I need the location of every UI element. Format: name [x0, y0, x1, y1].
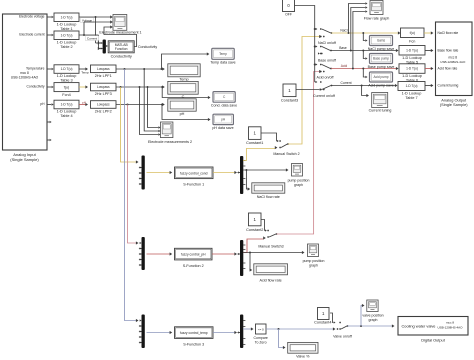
scope Electrode measurement 2 — [148, 122, 192, 144]
svg-text:pH: pH — [82, 100, 86, 104]
Constant4 block — [314, 308, 331, 325]
svg-text:2Hz LPF1: 2Hz LPF1 — [95, 74, 112, 78]
display Valve % — [288, 342, 318, 358]
svg-text:Table 3: Table 3 — [60, 79, 72, 83]
red wire Manual Switch3 up to Acid on/off — [277, 70, 325, 234]
wire cond Fcn4 to lowpass — [79, 85, 88, 88]
blue vertical temp to fuzzy mux — [125, 69, 139, 322]
Lowpass 2Hz LPF3 (conductivity) — [91, 83, 117, 96]
S-Function 1 fuzzy control_cond — [175, 167, 214, 187]
wire temp branch up to To Workspace Temp — [162, 52, 210, 69]
svg-text:Compare: Compare — [253, 336, 267, 340]
wire Current to scope and mux — [79, 20, 113, 50]
To Workspace Temp data save — [210, 48, 235, 64]
yellow vertical conductivity to fuzzy mux — [121, 87, 139, 164]
svg-text:USB-1208HS-4AO: USB-1208HS-4AO — [440, 60, 466, 64]
svg-text:Gains: Gains — [377, 39, 386, 43]
Base on/off switch — [318, 46, 336, 63]
To Workspace Base pump save — [368, 54, 395, 69]
scope Current tuning — [369, 93, 392, 113]
red wire Acid switch to lookup table 6 — [331, 67, 399, 70]
To Workspace Cond data save — [211, 92, 237, 108]
svg-text:Lowpass: Lowpass — [97, 67, 110, 71]
Compare To Zero block — [253, 324, 267, 345]
svg-text:1-D T(u): 1-D T(u) — [61, 33, 73, 37]
Current on/off switch — [313, 81, 335, 98]
demux fuzzy temp — [237, 315, 245, 349]
wire Base switch to lookup table 5 — [331, 49, 399, 52]
1-D Lookup Table 7 — [398, 82, 425, 101]
yellow wire demux up to Manual Switch 2 — [243, 146, 277, 161]
svg-text:1-D Lookup: 1-D Lookup — [57, 22, 77, 26]
svg-text:mcc 8: mcc 8 — [20, 71, 29, 75]
wire branch down to Current tuning scope — [362, 86, 369, 98]
svg-text:Electrode voltage: Electrode voltage — [19, 15, 45, 19]
svg-text:(Single Sample): (Single Sample) — [440, 102, 468, 107]
Manual Switch 2 — [273, 140, 299, 156]
svg-text:Electrode measurements 2: Electrode measurements 2 — [148, 140, 192, 144]
svg-text:1-D Lookup: 1-D Lookup — [57, 110, 77, 114]
wire S-Function 3 to demux — [213, 331, 237, 334]
svg-text:NaCl pump save: NaCl pump save — [368, 47, 395, 51]
scope pump position graph 2 — [303, 244, 325, 268]
MATLAB Function block Conductivity — [108, 41, 134, 59]
wire pH lookup to lowpass — [79, 100, 88, 106]
wire demux down to NaCl flow rate display — [246, 170, 250, 191]
svg-text:Temp: Temp — [179, 78, 188, 82]
Digital Output block — [398, 317, 468, 343]
wire S-Function 2 to demux — [212, 252, 237, 255]
S-Function 2 fuzzy control_pH — [175, 248, 213, 267]
svg-text:Table 4: Table 4 — [60, 114, 72, 118]
svg-text:Constant1: Constant1 — [246, 141, 263, 145]
svg-text:Acid pump: Acid pump — [373, 75, 388, 79]
wire demux to pump position graph 2 — [243, 251, 305, 254]
svg-text:Lowpass: Lowpass — [97, 103, 110, 107]
wire branch up to valve position graph — [361, 304, 365, 326]
wire down to Acid pump save — [363, 69, 367, 79]
wire Compare To Zero to Valve on/off switch — [266, 327, 338, 330]
svg-text:Temp: Temp — [81, 70, 89, 74]
Constant1 block — [246, 127, 263, 145]
svg-text:1-D T(u): 1-D T(u) — [61, 15, 73, 19]
svg-text:graph: graph — [369, 318, 378, 322]
wire mux to MATLAB Function — [106, 45, 108, 47]
wire demux to pump position graph 1 — [243, 168, 289, 171]
svg-text:1-D T(u): 1-D T(u) — [406, 84, 418, 88]
svg-text:Table 1: Table 1 — [60, 27, 72, 31]
svg-text:Valve on/off: Valve on/off — [333, 334, 352, 338]
svg-text:Lowpass: Lowpass — [97, 85, 110, 89]
Acid on/off switch — [317, 64, 334, 80]
Analog Input output ports / stubs — [47, 16, 54, 142]
svg-text:Cooling water valve: Cooling water valve — [402, 324, 436, 329]
svg-text:Conductivity: Conductivity — [27, 85, 45, 89]
scope pump position graph 1 — [288, 164, 310, 188]
1-D Lookup Table 3 (temperature) — [54, 65, 79, 83]
Valve on/off switch — [333, 322, 352, 339]
wires up to Flow rate graph scope — [349, 2, 368, 68]
svg-text:pump position: pump position — [288, 179, 310, 183]
svg-text:Conductivity: Conductivity — [138, 45, 157, 49]
wire temp lowpass to display — [116, 67, 165, 70]
svg-text:Constant3: Constant3 — [281, 98, 298, 102]
svg-text:Acid on/off: Acid on/off — [317, 76, 334, 80]
wire demux down to Acid flow rate display — [250, 253, 253, 272]
scope Electrode measurement 1 — [99, 15, 141, 35]
wire Voltage to scope and mux — [79, 15, 113, 44]
Lowpass 2Hz LPF2 (pH) — [91, 101, 117, 114]
To Workspace Acid pump save — [368, 72, 394, 87]
wire lookup 7 to Analog Output — [425, 84, 433, 87]
svg-text:fuzzy control_pH: fuzzy control_pH — [181, 253, 206, 257]
signal label Voltage — [80, 18, 93, 23]
svg-text:Acid: Acid — [341, 64, 348, 68]
svg-text:C: C — [182, 95, 185, 99]
svg-text:Cond. data save: Cond. data save — [211, 104, 237, 108]
svg-text:Manual Switch3: Manual Switch3 — [258, 244, 283, 248]
Fcn4 block (conductivity f(u)) — [54, 83, 79, 97]
wire Constant3 to Current switch — [296, 88, 325, 91]
wire cond branch to To Workspace C — [162, 87, 210, 99]
svg-text:1-D Lookup: 1-D Lookup — [402, 56, 422, 60]
svg-text:pH: pH — [221, 118, 226, 122]
svg-text:2Hz LPF3: 2Hz LPF3 — [95, 92, 112, 96]
svg-text:<= 0: <= 0 — [258, 328, 264, 332]
Lowpass 2Hz LPF1 (temp) — [91, 65, 117, 78]
mux for conductivity computation — [100, 40, 106, 54]
wire branch down to Valve display — [279, 329, 286, 349]
svg-text:Current: Current — [87, 36, 97, 40]
svg-text:Current: Current — [341, 81, 352, 85]
yellow wire Manual Switch 2 up to NaCl on/off — [288, 35, 325, 144]
svg-text:S-Function 3: S-Function 3 — [183, 342, 204, 346]
svg-text:Base on/off: Base on/off — [318, 59, 336, 63]
1-D Lookup Table 2 (current) — [54, 31, 79, 49]
svg-text:2Hz LPF2: 2Hz LPF2 — [95, 110, 112, 114]
wires feeding Electrode measurement 2 scope — [140, 69, 161, 136]
red vertical pH to fuzzy mux — [128, 105, 139, 245]
svg-text:pH: pH — [180, 112, 185, 116]
svg-text:Constant2: Constant2 — [246, 228, 263, 232]
svg-text:Table 7: Table 7 — [405, 96, 417, 100]
svg-text:NaCl flow rate: NaCl flow rate — [438, 31, 459, 35]
svg-text:USB-1208HS-4AO: USB-1208HS-4AO — [437, 325, 463, 329]
svg-text:Conductivity: Conductivity — [111, 54, 132, 59]
scope Flow rate graph — [364, 1, 390, 21]
svg-text:(Single Sample): (Single Sample) — [10, 157, 39, 162]
svg-text:1-D T(u): 1-D T(u) — [406, 48, 418, 52]
svg-text:Current on/off: Current on/off — [313, 94, 335, 98]
svg-text:Temp: Temp — [219, 52, 227, 56]
svg-text:MATLAB: MATLAB — [115, 43, 129, 47]
svg-text:1-D Lookup: 1-D Lookup — [402, 74, 422, 78]
svg-text:To Zero: To Zero — [255, 341, 267, 345]
red wire demux up to Manual Switch3 — [243, 236, 266, 252]
svg-text:pH data save: pH data save — [212, 126, 233, 130]
svg-text:Fcn4: Fcn4 — [62, 93, 70, 97]
svg-text:Base pump save: Base pump save — [368, 65, 395, 69]
svg-text:OFF: OFF — [285, 12, 292, 16]
wire lookup 5 to Analog Output — [425, 49, 433, 52]
Fcn block — [401, 28, 425, 44]
wire pH branch to To Workspace pH — [162, 105, 211, 122]
wire mux to S-Function 3 — [147, 331, 173, 334]
svg-text:Fcn: Fcn — [409, 40, 415, 44]
mux fuzzy pH — [139, 237, 145, 270]
red wire lookup 6 to Analog Output — [425, 67, 433, 70]
wire S-Function 1 to demux — [213, 171, 237, 174]
NaCl on/off switch — [318, 28, 336, 45]
Analog Input block (mcc USB-1208HS-4AO) — [3, 14, 48, 162]
signal label Acid — [341, 64, 348, 68]
wire demux to Compare To Zero — [243, 327, 254, 330]
svg-text:Flow rate graph: Flow rate graph — [364, 16, 390, 20]
display pH — [168, 99, 196, 116]
svg-text:pH: pH — [40, 102, 45, 106]
mux fuzzy cond — [139, 156, 145, 190]
svg-text:fuzzy control_cond: fuzzy control_cond — [180, 171, 208, 175]
svg-text:USB-1208HS-4AO: USB-1208HS-4AO — [11, 76, 39, 80]
svg-text:Function: Function — [115, 47, 128, 51]
svg-text:1-D T(u): 1-D T(u) — [61, 103, 73, 107]
wire pH lowpass to display — [116, 103, 165, 106]
constant OFF block — [283, 0, 295, 16]
signal label Current — [85, 36, 98, 41]
svg-text:NaCl flow rate: NaCl flow rate — [257, 195, 280, 199]
wire mux to S-Function 1 — [147, 171, 173, 174]
demux fuzzy pH — [237, 240, 245, 276]
1-D Lookup Table 6 — [399, 64, 425, 83]
svg-text:Current tuning: Current tuning — [369, 109, 392, 113]
svg-text:1-D Lookup: 1-D Lookup — [402, 92, 422, 96]
yellow wire Fcn to Analog Output — [424, 31, 433, 34]
svg-text:valve position: valve position — [362, 313, 383, 317]
Manual Switch3 — [258, 230, 283, 249]
svg-text:Acid flow rate: Acid flow rate — [438, 67, 458, 71]
display Temp — [168, 64, 200, 82]
wire Constant2 to Manual Switch3 — [261, 220, 267, 232]
display Acid flow rate — [254, 264, 288, 283]
svg-text:1-D T(u): 1-D T(u) — [406, 67, 418, 71]
svg-text:Electrode current: Electrode current — [19, 33, 44, 37]
svg-text:Base flow rate: Base flow rate — [438, 49, 459, 53]
wire mux to S-Function 2 — [147, 252, 173, 255]
wire down to NaCl pump save — [363, 33, 367, 42]
svg-text:f(u): f(u) — [410, 31, 415, 35]
svg-text:graph: graph — [294, 183, 303, 187]
display NaCl flow rate — [252, 183, 285, 199]
wire cond lowpass to display — [116, 85, 165, 88]
Constant3 block — [281, 84, 298, 102]
svg-text:mcc 8: mcc 8 — [449, 56, 458, 60]
svg-text:Temp data save: Temp data save — [210, 60, 235, 64]
svg-text:1-D T(u): 1-D T(u) — [61, 67, 73, 71]
svg-text:Current tuning: Current tuning — [438, 84, 459, 88]
svg-text:1-D Lookup: 1-D Lookup — [57, 40, 77, 44]
1-D Lookup Table 4 (pH) — [54, 100, 79, 118]
To Workspace NaCl pump save / Gains display — [368, 36, 395, 51]
svg-text:graph: graph — [309, 264, 318, 268]
svg-text:NaCl: NaCl — [340, 29, 348, 33]
svg-text:Valve %: Valve % — [296, 354, 310, 358]
svg-text:Base: Base — [339, 46, 347, 50]
svg-text:Acid pump save: Acid pump save — [368, 83, 394, 87]
svg-text:mcc 8: mcc 8 — [446, 321, 455, 325]
svg-text:Table 2: Table 2 — [60, 45, 72, 49]
wire Current switch to lookup table 7 — [332, 84, 398, 87]
svg-text:f(u): f(u) — [64, 85, 69, 89]
wire down to Base pump save — [363, 51, 367, 60]
wire Temp lookup to lowpass — [79, 67, 89, 74]
svg-text:Base pump: Base pump — [373, 57, 389, 61]
1-D Lookup Table 5 — [399, 46, 425, 65]
svg-text:Constant4: Constant4 — [314, 320, 331, 324]
svg-text:Acid flow rate: Acid flow rate — [260, 278, 282, 282]
signal label NaCl — [340, 29, 348, 33]
wire Constant4 to Valve switch top input — [330, 313, 336, 324]
svg-text:S-Function 1: S-Function 1 — [183, 183, 204, 187]
svg-text:fuzzy control_temp: fuzzy control_temp — [180, 331, 208, 335]
wire Constant1 to Manual Switch 2 — [261, 133, 279, 142]
svg-text:S-Function 2: S-Function 2 — [183, 264, 204, 268]
scope valve position graph — [362, 300, 383, 322]
signal label Conductivity — [138, 45, 157, 49]
1-D Lookup Table 1 (voltage) — [54, 13, 79, 31]
mux fuzzy temp — [139, 315, 145, 349]
svg-text:Digital Output: Digital Output — [421, 338, 445, 343]
signal label Base — [339, 46, 347, 50]
Analog Output block (mcc USB-1208HS-4AO) — [436, 22, 473, 107]
yellow wire NaCl switch to Fcn — [332, 31, 401, 34]
wire valve switch to Digital Output — [348, 324, 395, 327]
Constant2 block — [246, 213, 263, 232]
svg-text:1-D Lookup: 1-D Lookup — [57, 74, 77, 78]
svg-text:Manual Switch 2: Manual Switch 2 — [273, 152, 299, 156]
svg-text:NaCl on/off: NaCl on/off — [318, 41, 336, 45]
display C — [168, 81, 198, 98]
Base switch unconnected stub — [318, 52, 323, 54]
wire OFF constant down switch feed line — [295, 6, 318, 84]
svg-text:pump position: pump position — [303, 259, 325, 263]
demux fuzzy cond — [237, 156, 245, 194]
signal label Current — [341, 81, 352, 85]
wire Conductivity wrap-around to scope input 3 — [104, 25, 137, 46]
S-Function 3 fuzzy control_temp — [175, 327, 214, 347]
To Workspace pH data save — [212, 114, 233, 130]
svg-text:Electrode measurement 1: Electrode measurement 1 — [99, 31, 141, 35]
